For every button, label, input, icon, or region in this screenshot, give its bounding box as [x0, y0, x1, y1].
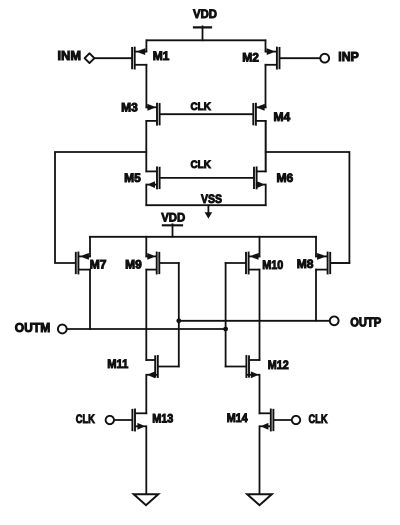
svg-text:INM: INM	[58, 49, 82, 63]
svg-text:M3: M3	[121, 100, 138, 114]
svg-text:OUTP: OUTP	[350, 315, 381, 329]
svg-text:M2: M2	[242, 51, 259, 65]
svg-text:CLK: CLK	[191, 101, 211, 113]
svg-text:VDD: VDD	[193, 7, 217, 21]
svg-text:M6: M6	[277, 171, 294, 185]
svg-text:INP: INP	[338, 50, 359, 64]
svg-text:VDD: VDD	[161, 211, 185, 225]
svg-text:M5: M5	[124, 171, 141, 185]
svg-text:M9: M9	[125, 257, 142, 271]
svg-text:CLK: CLK	[76, 412, 95, 426]
svg-text:CLK: CLK	[309, 412, 328, 426]
svg-text:M1: M1	[153, 49, 170, 63]
svg-text:M14: M14	[227, 411, 248, 425]
svg-text:CLK: CLK	[191, 159, 211, 171]
svg-text:M10: M10	[262, 258, 283, 272]
svg-text:M13: M13	[152, 412, 173, 426]
svg-text:OUTM: OUTM	[15, 320, 51, 335]
svg-text:M7: M7	[90, 257, 107, 271]
svg-text:VSS: VSS	[201, 192, 222, 206]
svg-text:M11: M11	[107, 357, 128, 371]
svg-text:M8: M8	[297, 257, 314, 271]
svg-text:M12: M12	[268, 358, 289, 372]
svg-text:M4: M4	[274, 110, 291, 124]
